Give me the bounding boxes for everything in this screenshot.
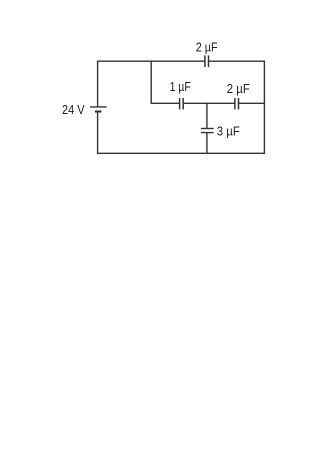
wire inner-left vertical bbox=[150, 61, 152, 104]
wire left edge upper bbox=[97, 61, 99, 107]
svg-text:2 µF: 2 µF bbox=[196, 39, 218, 54]
wire top-right segment bbox=[209, 60, 265, 62]
capacitor C4 3 uF bottom plate bbox=[201, 132, 214, 134]
wire top-left segment bbox=[97, 60, 205, 62]
wire middle-left segment bbox=[151, 102, 180, 104]
capacitor C1 2 uF right plate bbox=[208, 55, 210, 67]
battery V1 short plate bbox=[95, 110, 102, 112]
capacitor C3 2 uF left plate bbox=[234, 98, 236, 109]
wire middle-center segment bbox=[183, 102, 234, 104]
wire right edge bbox=[263, 61, 265, 155]
svg-text:24 V: 24 V bbox=[62, 102, 85, 117]
wire 3uF branch lower bbox=[206, 133, 208, 154]
wire bottom edge bbox=[97, 152, 265, 154]
wire 3uF branch upper bbox=[206, 103, 208, 129]
capacitor C2 1 uF right plate bbox=[182, 98, 184, 109]
wire middle-right segment bbox=[239, 102, 265, 104]
capacitor C3 2 uF right plate bbox=[238, 98, 240, 109]
battery V1 long plate bbox=[90, 106, 107, 108]
svg-text:1 µF: 1 µF bbox=[170, 79, 191, 94]
capacitor C2 1 uF left plate bbox=[179, 98, 181, 109]
svg-text:3 µF: 3 µF bbox=[217, 123, 240, 138]
svg-text:2 µF: 2 µF bbox=[227, 81, 250, 96]
capacitor C4 3 uF top plate bbox=[201, 128, 214, 130]
capacitor C1 2 uF left plate bbox=[204, 55, 206, 67]
wire left edge lower bbox=[97, 113, 99, 154]
